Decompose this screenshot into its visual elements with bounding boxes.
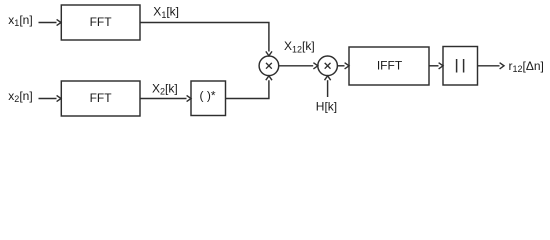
node H[k] label [316,99,337,113]
svg-text:X2[k]: X2[k] [152,81,178,96]
wire IFFT to magnitude [429,63,443,69]
wire M1 output to multiplier M2 [279,63,318,69]
input label x2[n] [8,89,32,104]
block conjugate ( )* U5 [191,81,226,116]
svg-text:x2[n]: x2[n] [8,89,32,104]
block FFT U2 (bottom) [61,81,140,116]
node X1[k] label [153,5,179,20]
block magnitude | | U4 [443,47,478,86]
wire conjugate to multiplier M1 [226,76,273,99]
output label r12[dn] [509,59,544,74]
node X12[k] label [284,39,315,54]
node X2[k] label [152,81,178,96]
wire x2 input arrow [39,95,62,101]
svg-text:FFT: FFT [90,91,113,105]
block FFT U1 (top) [61,5,140,40]
input label x1[n] [8,13,32,28]
multiplier M2 [318,56,338,76]
multiplier M1 [259,56,279,76]
svg-text:IFFT: IFFT [377,59,403,73]
wire x1 input arrow [39,19,62,25]
svg-text:FFT: FFT [90,15,113,29]
svg-text:( )*: ( )* [200,89,216,103]
svg-text:X1[k]: X1[k] [153,5,179,20]
wire M2 to IFFT [337,63,349,69]
block IFFT U3 [349,47,429,85]
wire output arrow [478,63,505,69]
svg-text:x1[n]: x1[n] [8,13,32,28]
svg-text:r12[Δn]: r12[Δn] [509,59,544,74]
wire X1[k] from FFT to multiplier M1 [140,23,272,56]
wire FFT to conjugate [140,95,191,101]
svg-text:X12[k]: X12[k] [284,39,315,54]
svg-text:H[k]: H[k] [316,99,337,113]
wire H[k] into M2 [325,76,331,97]
